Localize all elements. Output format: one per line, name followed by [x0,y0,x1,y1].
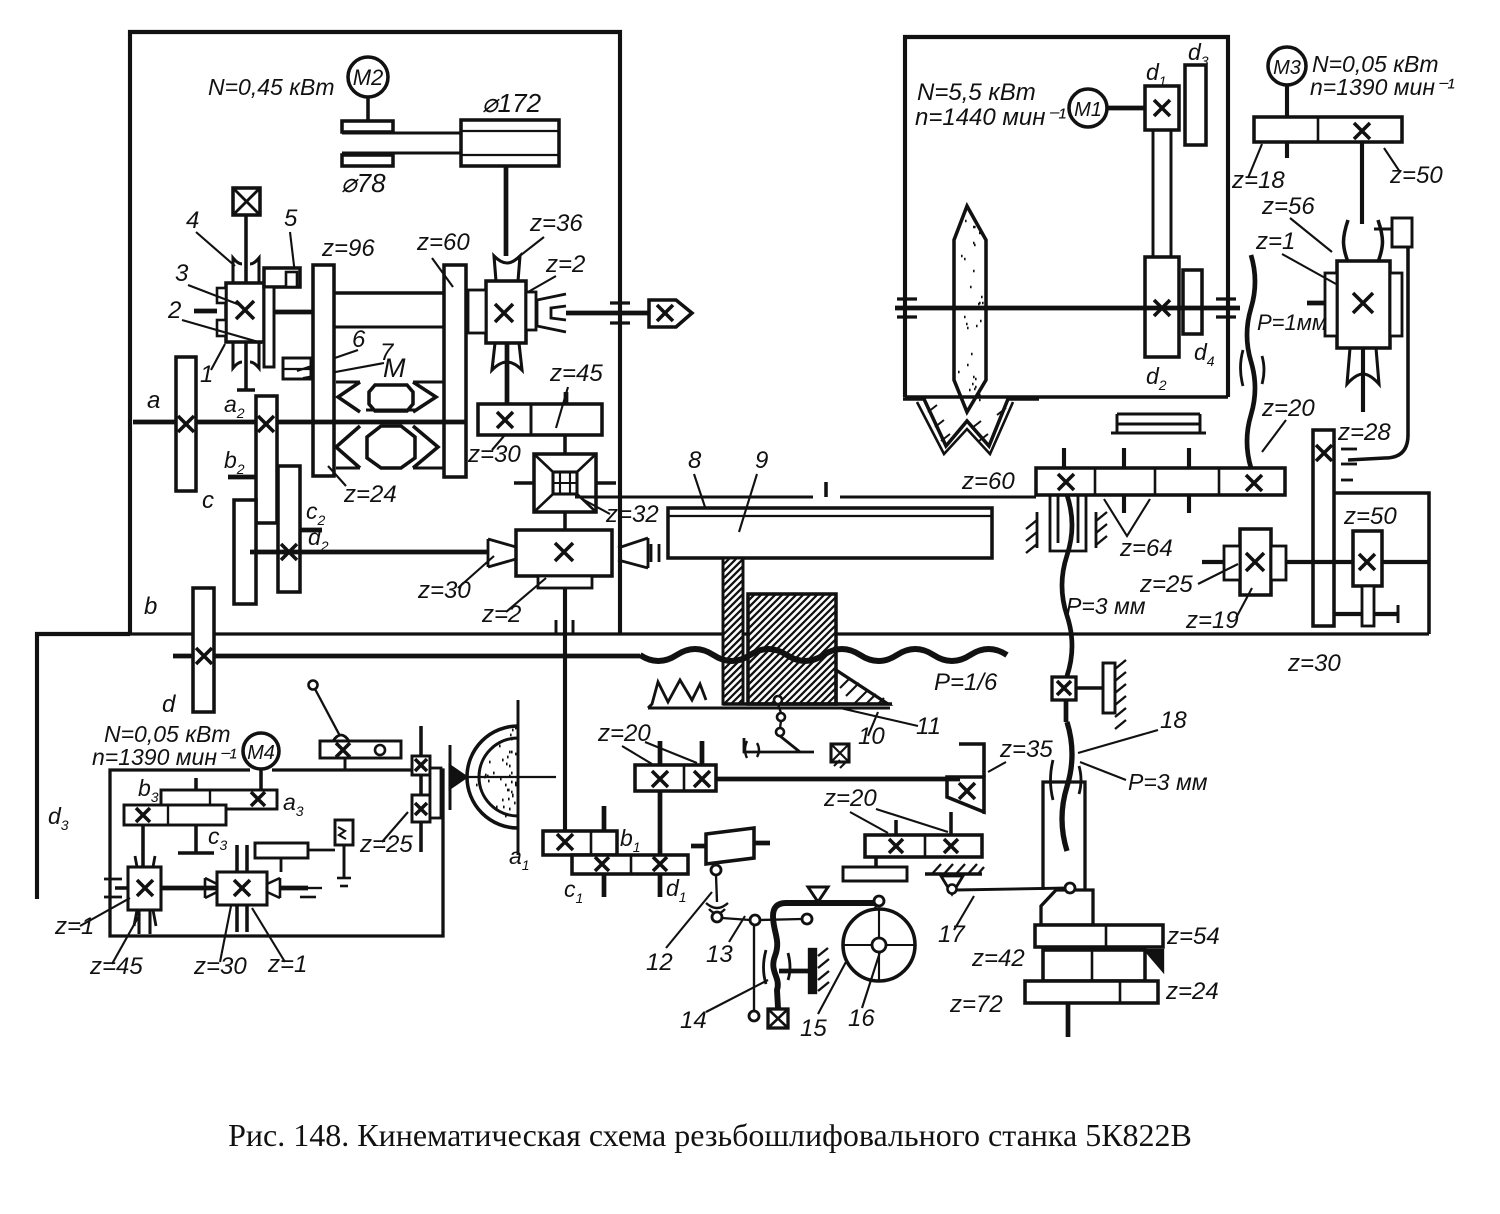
wall bar [809,949,816,993]
detent 5 [264,268,300,287]
wire stub left of unit 1-2-3 [194,309,217,314]
svg-text:z=30: z=30 [467,441,521,468]
frame feed-gearbox housing [130,32,620,634]
wire c3 stub [194,825,198,853]
friction disc 16 [843,909,915,981]
table 8 [668,508,992,558]
svg-text:15: 15 [800,1015,827,1042]
flex arcs 18 [1051,760,1082,800]
worm wheel crown [1344,220,1383,262]
gear z=50 right [1353,531,1382,586]
frame grinding headstock [905,37,1228,397]
svg-text:17: 17 [938,921,966,948]
svg-text:z=1: z=1 [267,951,307,978]
wire vertical to b1 [563,588,567,831]
svg-text:n=1440 мин⁻¹: n=1440 мин⁻¹ [915,104,1066,131]
wire cross stubs [514,481,534,485]
leadscrew P=1/6 [640,649,1007,661]
worm box z=1 left [128,867,161,910]
gear row b1 [543,831,617,855]
wire c2 stub [300,528,322,533]
clutch fork right lower [618,538,648,568]
gear row d3 [124,805,226,825]
bracket rect M3 [1392,218,1412,247]
wire spline shaft [334,291,444,295]
screw P=3mm upper [1062,495,1072,676]
svg-text:z=50: z=50 [1343,503,1397,530]
wire b3 tick [194,778,198,790]
svg-text:z=24: z=24 [343,481,397,508]
clevis under row [1050,495,1086,551]
screw P=1mm flexible [1247,255,1255,468]
clamp on link [1041,890,1093,925]
svg-text:z=18: z=18 [1231,167,1285,194]
pulley d1 [1145,86,1179,130]
clutch fork right [537,294,566,332]
bearing ticks right [650,544,653,562]
svg-text:z=56: z=56 [1261,193,1315,220]
gear z=54 row [1035,925,1163,947]
svg-text:3: 3 [175,260,189,287]
slider under z=20 [843,867,907,881]
shaft a [133,420,466,425]
bearing box screw [1052,677,1076,700]
tailstock cone [450,766,466,788]
bearing left stub [115,886,128,890]
lever 10 [648,707,890,710]
gear c [234,500,256,604]
wire M4 shaft [259,769,263,792]
svg-text:M4: M4 [247,742,275,764]
pulley d3 [1185,65,1206,145]
wire carriage rail [575,496,813,499]
gearbox z=25 z=19 [1240,529,1271,595]
handwheel [233,188,260,215]
svg-text:d: d [162,691,176,718]
screw 18 flexible [1064,700,1069,722]
svg-text:2: 2 [167,297,181,324]
wire row to cross [563,435,567,454]
pin circle 15 [874,896,884,906]
wire pulley shaft [504,166,509,256]
svg-text:z=1: z=1 [54,913,94,940]
dresser pivot lever [309,681,318,690]
pulley d4 [1183,270,1202,334]
svg-text:N=0,45 кВт: N=0,45 кВт [208,74,335,100]
spring nut z=25 feed [335,820,353,845]
svg-text:M1: M1 [1074,99,1102,121]
worm box z=1 right [217,872,267,905]
wire z20 to d1 [658,791,663,855]
svg-text:z=20: z=20 [597,720,651,747]
svg-text:z=2: z=2 [545,251,585,278]
pivot triangle 17 [941,876,963,894]
svg-text:z=96: z=96 [321,235,375,262]
svg-text:n=1390 мин⁻¹: n=1390 мин⁻¹ [92,744,237,770]
flex arcs 14 [764,950,791,984]
coupling step lines [1117,413,1200,416]
svg-text:4: 4 [186,207,199,234]
svg-text:z=64: z=64 [1119,535,1173,562]
workpiece thread grooves [903,399,1039,446]
wall hatch right [1095,512,1098,548]
svg-text:z=35: z=35 [999,736,1053,763]
wire nut foot [723,702,892,706]
maltese cross z=32 [534,454,596,512]
svg-text:9: 9 [755,447,768,474]
gear d2 [278,466,300,592]
motor M4 [243,733,279,769]
svg-text:P=1/6: P=1/6 [934,669,998,696]
svg-text:z=45: z=45 [549,360,603,387]
bearing ticks row [1062,448,1066,468]
svg-text:⌀172: ⌀172 [482,88,542,118]
arrow spindle end [649,300,692,327]
gear unit 1-2-3 box [226,283,264,342]
svg-text:12: 12 [646,949,673,976]
svg-text:8: 8 [688,447,702,474]
pulley d2 [1145,257,1179,357]
svg-text:z=30: z=30 [1287,650,1341,677]
gear z=60 left [444,265,466,477]
machine column outline [37,634,130,899]
bed joint ticks [555,620,558,634]
bevel z=35 [959,744,984,777]
wire stub left worm [1307,301,1325,306]
bearing ticks c1 d1 [602,806,607,831]
pulley O78 [342,121,393,132]
bearing plate [1076,686,1103,690]
fork below unit 1-2-3 [233,342,259,368]
svg-text:z=28: z=28 [1337,419,1391,446]
clutch fork left lower [488,539,516,567]
rod to wall [779,969,811,974]
wire shaft below unit [244,342,248,390]
wire worm shaft [161,886,217,891]
gear pair z=20 left [635,765,716,791]
worm gearbox z=1 z=56 [1337,261,1390,348]
wire M2 shaft [366,97,370,121]
spring of lever 10 [648,680,706,708]
wheel dots [958,221,984,400]
svg-text:c: c [202,487,214,514]
gear z=42 row [1043,950,1145,981]
flanges unit 1-2-3 [217,288,226,303]
svg-text:6: 6 [352,326,366,353]
svg-text:z=19: z=19 [1185,607,1239,634]
svg-text:16: 16 [848,1005,875,1032]
svg-text:P=1мм: P=1мм [1257,310,1327,335]
cone gear block M [336,381,360,384]
wire M1 shaft [1107,106,1145,111]
wire stack shaft [1066,1003,1071,1037]
spindle bearings [897,297,917,300]
gear pair z=18 z=50 [1254,117,1402,142]
svg-text:z=60: z=60 [416,229,470,256]
svg-text:N=5,5 кВт: N=5,5 кВт [917,79,1036,106]
bracket 9 [723,558,743,704]
gearbox z=2 lower [516,530,612,576]
gear row c1-d1 [572,855,688,874]
svg-text:z=54: z=54 [1166,923,1220,950]
svg-text:18: 18 [1160,707,1187,734]
wire z50 shaft down [1360,142,1364,224]
svg-text:Рис. 148. Кинематическая схема: Рис. 148. Кинематическая схема резьбошли… [228,1117,1192,1153]
belt d1-d2 [1152,130,1155,257]
machine bed line [130,632,1429,635]
wire shafts z=50 [1334,560,1353,564]
gear a2 [256,396,277,523]
bearing marks z=28 [1341,448,1357,451]
fork below z=2 upper [492,343,522,370]
link pivot chain [711,865,721,875]
bearing ticks box2 [235,845,239,872]
wire output shaft right [566,311,649,316]
housing M4 box [110,770,443,936]
gear pair z=20 right [865,835,982,857]
gear on shaft a [176,357,196,491]
svg-text:n=1390 мин⁻¹: n=1390 мин⁻¹ [1310,74,1455,100]
svg-text:13: 13 [706,941,733,968]
svg-text:z=32: z=32 [605,501,659,528]
pivot triangle 15 [808,887,828,902]
svg-text:1: 1 [200,361,213,388]
ground hatched [925,872,982,876]
svg-text:11: 11 [916,713,941,740]
svg-text:P=3 мм: P=3 мм [1128,769,1208,795]
gear on shaft d [193,588,214,712]
wire vertical to z=45 row [505,343,510,404]
wire M3 shaft [1285,85,1289,158]
motor M1 [1069,89,1107,127]
svg-text:M3: M3 [1273,57,1301,79]
spindle shaft [895,306,1240,311]
svg-text:z=1: z=1 [1255,228,1295,255]
housing z=30 box [1334,493,1429,634]
gearbox z=2 upper [486,281,526,343]
slotted link [1043,782,1085,890]
shaft feed horizontal [716,777,960,782]
svg-text:z=25: z=25 [359,831,413,858]
gear row a3 [161,790,277,809]
gear row z=45 [478,404,602,435]
clutch 6-7 [283,358,311,379]
svg-text:z=24: z=24 [1165,978,1219,1005]
svg-text:14: 14 [680,1007,707,1034]
svg-text:⌀78: ⌀78 [341,168,386,198]
wire link to gear z=96 [274,310,313,315]
pulley O172 [461,120,559,166]
fork z=36 [494,256,520,281]
svg-text:z=30: z=30 [417,577,471,604]
svg-text:z=25: z=25 [1139,571,1193,598]
dressing wheel [467,726,518,828]
slide block [255,843,308,858]
fork above unit 1-2-3 [233,258,259,283]
wall hatch left [1036,512,1039,548]
svg-text:z=72: z=72 [949,991,1003,1018]
wheel grit dots [476,728,519,816]
svg-text:b: b [144,593,157,620]
wire output right stub [280,886,308,891]
dresser slide row [320,741,401,758]
gear z=24 row [1025,981,1158,1003]
svg-text:5: 5 [284,205,298,232]
gear z=28 [1313,430,1334,626]
motor M3 [1268,47,1306,85]
linkage under nut [774,696,782,704]
grinding wheel [954,206,986,412]
motor M2 [348,57,388,97]
shaft d [173,654,640,659]
svg-text:a: a [147,387,160,414]
svg-text:z=42: z=42 [971,945,1025,972]
svg-text:z=60: z=60 [961,468,1015,495]
hanging rod 13 [753,925,755,1012]
svg-text:z=20: z=20 [823,785,877,812]
svg-text:M: M [383,353,406,383]
rod 14 flexible [773,903,879,1008]
svg-text:z=20: z=20 [1261,395,1315,422]
svg-text:z=36: z=36 [529,210,583,237]
belt M2 [342,132,559,135]
fork below worm [1347,348,1379,384]
svg-text:M2: M2 [353,65,384,90]
svg-text:P=3 мм: P=3 мм [1066,593,1146,619]
wedge mark [1145,950,1163,971]
nut wedge [836,670,888,704]
gear z=96 [313,265,334,476]
flex arcs P1 [1241,350,1265,386]
wire shaft b2 stub [228,475,256,480]
shaft c2-d2 [250,550,488,555]
damper 12 [706,828,754,864]
wire d3 shaft [141,825,145,867]
feedback rod [1348,247,1408,460]
wire handwheel shaft [244,215,248,283]
anchor pawl box [831,744,849,762]
nut on leadscrew [748,594,836,704]
lever 17 [956,888,1069,890]
bearing at frame edge [610,301,630,304]
gear row z=60-64-20 [1036,468,1285,495]
gear z=25 column [412,756,430,775]
crossed anchor 14 [768,1009,788,1028]
